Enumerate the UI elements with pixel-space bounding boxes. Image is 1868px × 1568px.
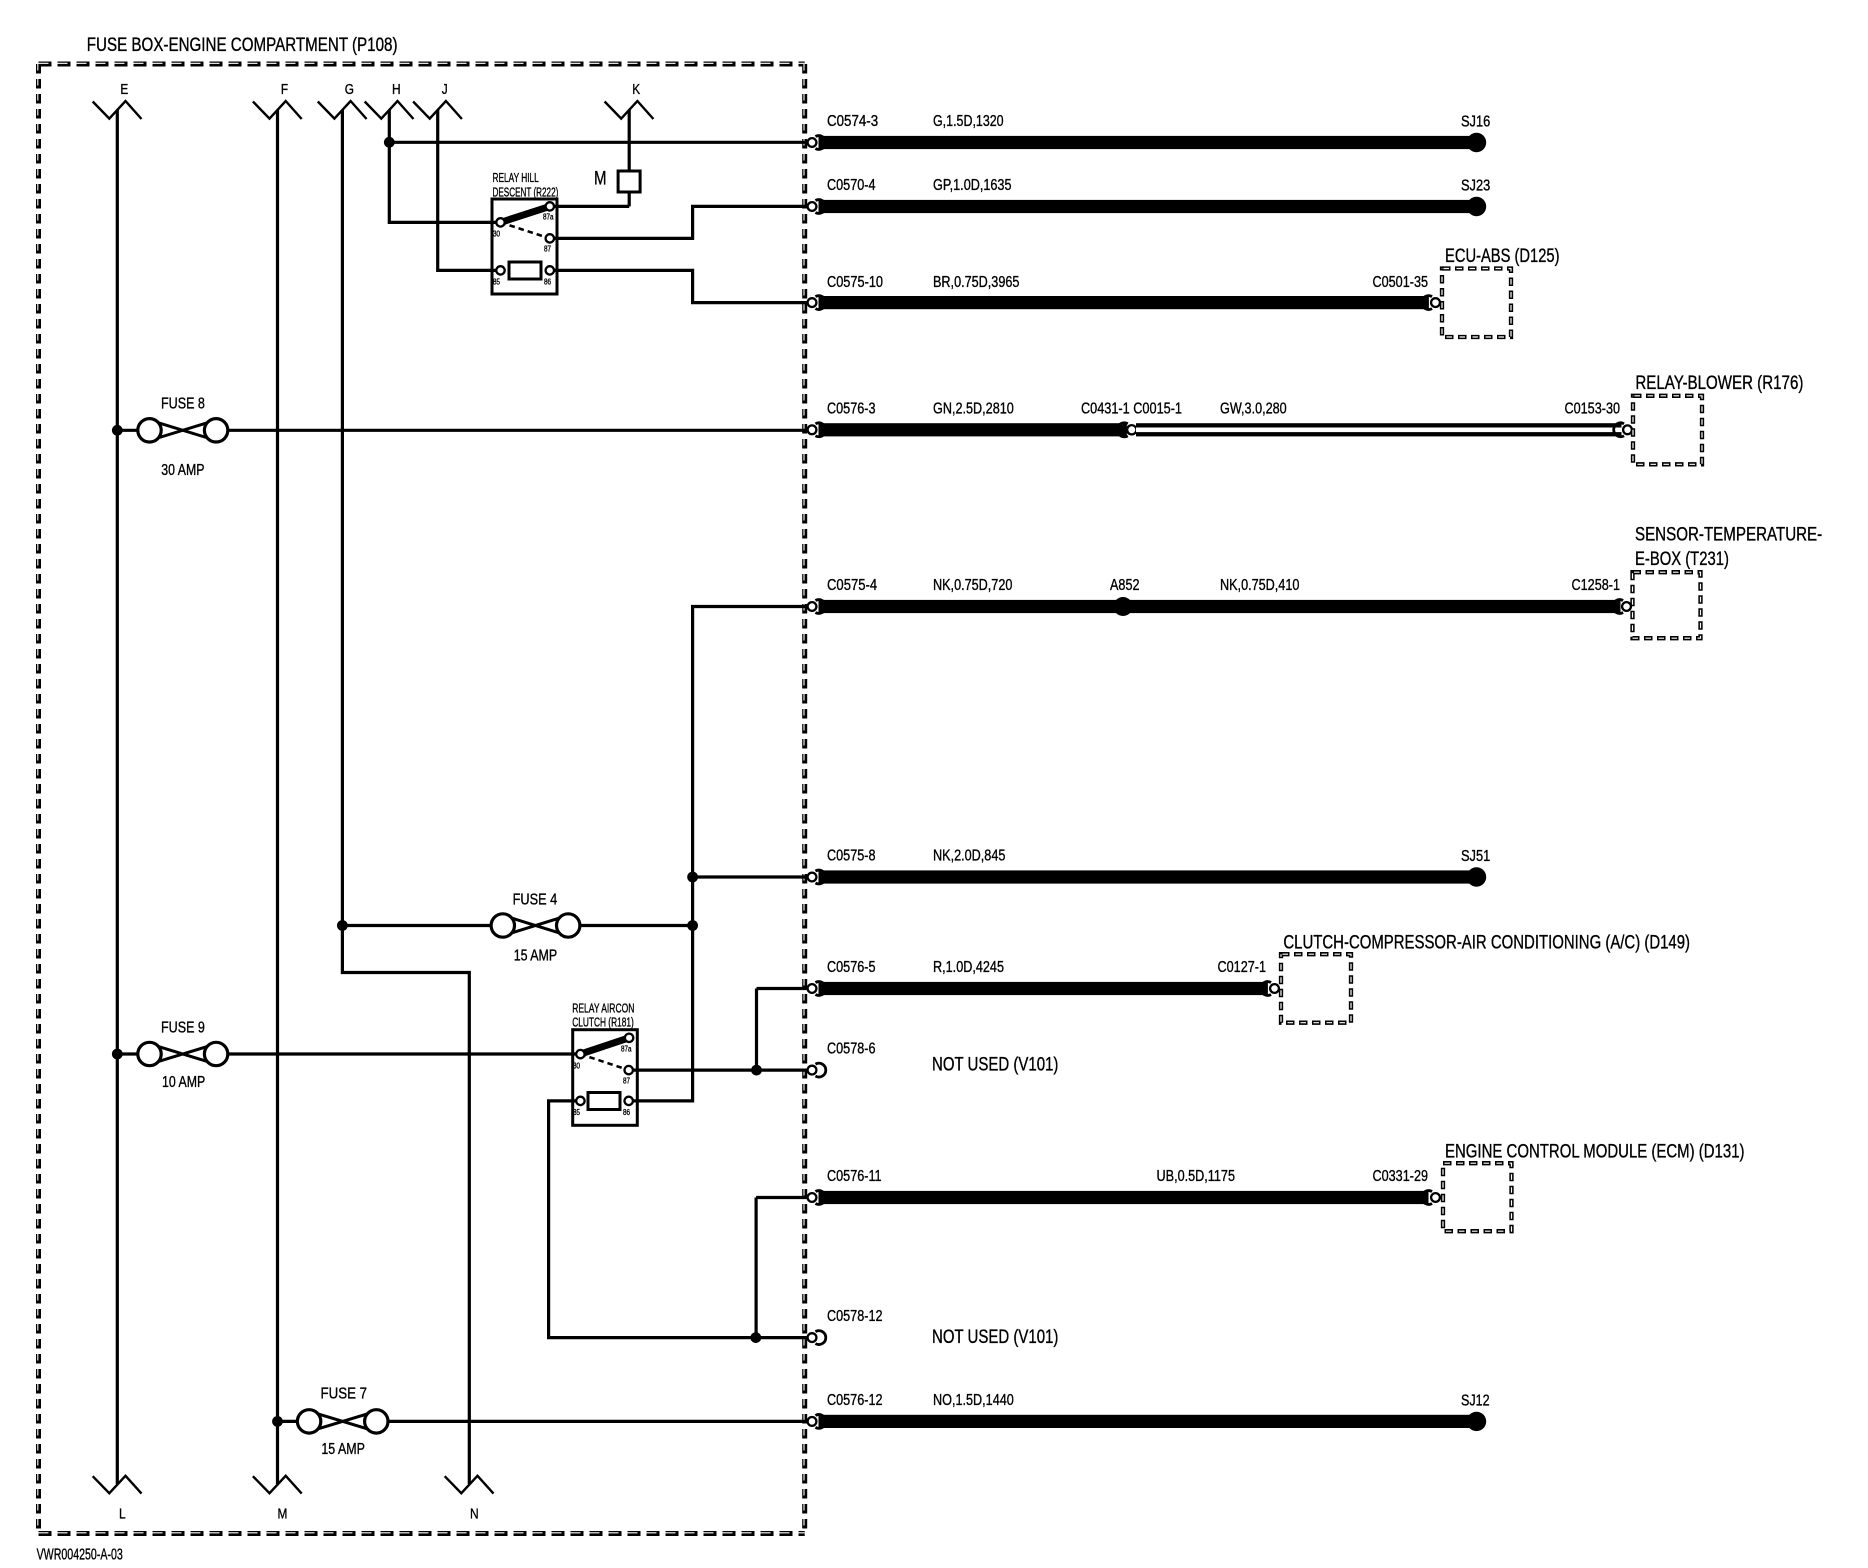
relay R181 pin 87: [623, 1066, 633, 1086]
svg-text:87a: 87a: [543, 213, 554, 222]
relay R181 pin 87a: [621, 1034, 633, 1054]
svg-text:87: 87: [623, 1077, 630, 1086]
splice SJ51: [1461, 848, 1490, 887]
svg-text:E: E: [120, 81, 128, 98]
wire H to row C0574-3: [389, 141, 807, 144]
component ENGINE CONTROL MODULE (ECM) (D131): [1443, 1142, 1745, 1232]
connector C1258-1: [1613, 600, 1632, 614]
wire bar row 5: [819, 600, 1621, 613]
wire G to fuse 4: [342, 924, 491, 927]
connector E (top): [93, 81, 142, 119]
svg-text:M: M: [278, 1506, 288, 1523]
junction dot rows 7/8: [751, 1065, 762, 1076]
svg-text:CLUTCH-COMPRESSOR-AIR CONDITIO: CLUTCH-COMPRESSOR-AIR CONDITIONING (A/C)…: [1283, 933, 1690, 954]
relay R222 pin 30: [493, 218, 505, 238]
svg-text:FUSE 8: FUSE 8: [161, 396, 205, 413]
junction dot splice column / row 6: [687, 872, 698, 883]
wire E to fuse 8: [117, 429, 138, 432]
svg-text:30: 30: [573, 1062, 580, 1071]
svg-text:FUSE BOX-ENGINE COMPARTMENT (P: FUSE BOX-ENGINE COMPARTMENT (P108): [87, 35, 398, 56]
component CLUTCH-COMPRESSOR-AIR CONDITIONING (A/C) (D149): [1281, 933, 1690, 1023]
svg-text:RELAY AIRCON: RELAY AIRCON: [572, 1000, 634, 1015]
wire fuse 8 to row C0576-3: [228, 429, 807, 432]
svg-text:NK,2.0D,845: NK,2.0D,845: [933, 848, 1005, 865]
relay R222 pin 85: [493, 266, 505, 286]
relay R222 coil: [509, 262, 541, 279]
border connector row 1: [807, 136, 826, 150]
splice SJ16: [1461, 114, 1490, 153]
svg-text:RELAY HILL: RELAY HILL: [493, 170, 539, 185]
relay R181 box: [572, 1000, 637, 1125]
junction dot splice column / fuse 4: [687, 920, 698, 931]
svg-text:C1258-1: C1258-1: [1572, 577, 1621, 594]
connector H (top): [365, 81, 414, 119]
wire bar row 4 (double line GW): [1136, 423, 1622, 436]
svg-text:GN,2.5D,2810: GN,2.5D,2810: [933, 400, 1014, 417]
svg-text:SJ12: SJ12: [1461, 1393, 1490, 1410]
fuse box P108 dashed border: [38, 63, 805, 1533]
relay R181 switch arm 30-87 (dashed): [580, 1054, 628, 1070]
svg-text:85: 85: [573, 1108, 580, 1117]
fuse F8 FUSE 8 30 AMP: [138, 396, 228, 479]
connector N (bottom): [445, 1476, 494, 1523]
wire R222 pin 86 to row C0575-10: [554, 270, 807, 302]
svg-text:L: L: [119, 1506, 126, 1523]
wire bus E: [116, 110, 119, 1484]
svg-text:C0331-29: C0331-29: [1373, 1168, 1429, 1185]
fuse F4 FUSE 4 15 AMP: [491, 892, 580, 965]
connector C0501-35: [1422, 296, 1441, 310]
svg-text:NOT USED (V101): NOT USED (V101): [932, 1054, 1058, 1075]
svg-text:C0127-1: C0127-1: [1218, 959, 1267, 976]
svg-text:BR,0.75D,3965: BR,0.75D,3965: [933, 274, 1019, 291]
svg-text:RELAY-BLOWER (R176): RELAY-BLOWER (R176): [1635, 373, 1803, 394]
svg-text:SJ51: SJ51: [1461, 848, 1490, 865]
svg-text:ENGINE CONTROL MODULE (ECM) (D: ENGINE CONTROL MODULE (ECM) (D131): [1445, 1142, 1745, 1163]
wire fuse 7 to row C0576-12: [388, 1420, 807, 1423]
border connector row 11: [807, 1415, 826, 1429]
svg-text:N: N: [470, 1506, 479, 1523]
wire R222 pin 87 to row C0570-4: [554, 206, 807, 238]
svg-text:C0153-30: C0153-30: [1565, 400, 1621, 417]
wire fuse 9 to relay R181 pin 30: [228, 1052, 581, 1055]
inline connector C0431-1/C0015-1: [1117, 423, 1136, 437]
junction dot E / fuse 9: [112, 1049, 123, 1060]
fuse F9 FUSE 9 10 AMP: [138, 1019, 228, 1091]
svg-text:C0570-4: C0570-4: [827, 177, 876, 194]
svg-text:NO,1.5D,1440: NO,1.5D,1440: [933, 1392, 1014, 1409]
wire bus G to N: [342, 110, 469, 1484]
connector C0331-29: [1422, 1191, 1441, 1205]
wire M to fuse 7: [278, 1420, 298, 1423]
svg-text:A852: A852: [1110, 577, 1140, 594]
junction dot E / fuse 8: [112, 425, 123, 436]
border connector row 8: [807, 1063, 826, 1077]
svg-text:C0578-12: C0578-12: [827, 1308, 883, 1325]
wire bar row 1: [819, 136, 1471, 149]
svg-text:NK,0.75D,720: NK,0.75D,720: [933, 577, 1012, 594]
wire bus J to relay R222 pin 85: [438, 110, 501, 270]
splice SJ12: [1461, 1393, 1490, 1432]
svg-text:GW,3.0,280: GW,3.0,280: [1220, 400, 1287, 417]
svg-text:C0576-3: C0576-3: [827, 400, 876, 417]
wire bus H to relay R222 pin 30: [389, 110, 500, 222]
svg-text:GP,1.0D,1635: GP,1.0D,1635: [933, 177, 1012, 194]
svg-text:30 AMP: 30 AMP: [161, 462, 204, 479]
svg-text:E-BOX (T231): E-BOX (T231): [1635, 549, 1729, 570]
wire E to fuse 9: [117, 1052, 138, 1055]
connector K (top): [605, 81, 654, 119]
svg-text:UB,0.5D,1175: UB,0.5D,1175: [1157, 1168, 1236, 1185]
svg-text:15 AMP: 15 AMP: [514, 948, 558, 965]
wire R181 pin 87 to rows C0576-5 / C0578-6: [633, 1068, 807, 1071]
svg-text:FUSE 7: FUSE 7: [321, 1386, 368, 1403]
fuse F7 FUSE 7 15 AMP: [297, 1386, 388, 1459]
splice A852: [1110, 577, 1140, 616]
svg-text:C0576-11: C0576-11: [827, 1168, 882, 1185]
svg-text:85: 85: [493, 278, 500, 287]
svg-text:M: M: [594, 169, 607, 190]
relay R181 coil: [588, 1093, 620, 1110]
border connector row 2: [807, 200, 826, 214]
svg-text:FUSE 9: FUSE 9: [161, 1019, 205, 1036]
wire bar row 7: [819, 982, 1268, 995]
svg-text:C0575-10: C0575-10: [827, 274, 883, 291]
connector L (bottom): [93, 1476, 142, 1523]
svg-text:C0574-3: C0574-3: [827, 113, 878, 130]
svg-text:10 AMP: 10 AMP: [162, 1074, 205, 1091]
wire bar row 11: [819, 1415, 1471, 1428]
relay R222 pin 87: [544, 234, 554, 253]
relay R181 switch arm 30-87a (solid): [580, 1038, 629, 1054]
relay R222 box: [492, 170, 558, 294]
connector F (top): [253, 81, 302, 119]
svg-text:NK,0.75D,410: NK,0.75D,410: [1220, 577, 1299, 594]
junction dot M / fuse 7: [272, 1416, 283, 1427]
svg-text:C0576-5: C0576-5: [827, 959, 876, 976]
wire bus F-M: [276, 110, 279, 1484]
svg-text:C0576-12: C0576-12: [827, 1392, 883, 1409]
splice SJ23: [1461, 178, 1490, 217]
svg-text:G: G: [345, 81, 354, 98]
component SENSOR-TEMPERATURE-E-BOX (T231): [1633, 524, 1823, 638]
junction dot rows 9/10: [750, 1332, 761, 1343]
wire bus K to motor M: [628, 110, 631, 171]
svg-text:ECU-ABS (D125): ECU-ABS (D125): [1445, 246, 1560, 267]
relay R181 pin 30: [573, 1050, 585, 1071]
connector J (top): [413, 81, 462, 119]
connector G (top): [318, 81, 367, 119]
wire bar row 2: [819, 200, 1471, 213]
border connector row 9: [807, 1191, 826, 1205]
svg-text:G,1.5D,1320: G,1.5D,1320: [933, 113, 1004, 130]
border connector row 6: [807, 870, 826, 884]
wire bar row 3: [819, 296, 1429, 309]
svg-text:C0575-4: C0575-4: [827, 577, 877, 594]
svg-text:C0501-35: C0501-35: [1373, 274, 1429, 291]
motor M box: [594, 169, 640, 193]
connector C0127-1: [1261, 982, 1280, 996]
svg-text:F: F: [281, 81, 288, 98]
component RELAY-BLOWER (R176): [1633, 373, 1803, 464]
svg-text:J: J: [442, 81, 448, 98]
svg-text:SJ16: SJ16: [1461, 114, 1490, 131]
wire bar row 9: [819, 1191, 1429, 1204]
svg-text:30: 30: [493, 230, 500, 239]
svg-text:15 AMP: 15 AMP: [321, 1441, 365, 1458]
svg-text:H: H: [392, 81, 401, 98]
svg-text:FUSE 4: FUSE 4: [513, 892, 558, 909]
wire R181 pin 86 / splice column to rows C0575-4, C0575-8: [633, 607, 807, 1101]
relay R222 switch arm 30-87 (dashed): [501, 222, 550, 238]
wire R181 pin 85 to rows C0576-11 / C0578-12: [549, 1101, 807, 1338]
relay R222 pin 87a: [543, 202, 554, 221]
svg-text:86: 86: [544, 278, 551, 287]
svg-text:C0431-1 C0015-1: C0431-1 C0015-1: [1081, 400, 1182, 417]
wire R222 pin 87a to motor M: [554, 205, 629, 208]
border connector row 10: [807, 1331, 826, 1345]
svg-text:86: 86: [623, 1108, 630, 1117]
svg-text:CLUTCH (R181): CLUTCH (R181): [572, 1015, 634, 1030]
border connector row 7: [807, 982, 826, 996]
border connector row 5: [807, 600, 826, 614]
relay R222 switch arm 30-87a (solid): [501, 206, 550, 222]
relay R222 pin 86: [544, 266, 554, 286]
junction dot H / row1: [384, 137, 395, 148]
svg-text:VWR004250-A-03: VWR004250-A-03: [37, 1547, 123, 1564]
junction dot G / fuse 4: [337, 920, 348, 931]
connector C0153-30: [1614, 423, 1633, 437]
component ECU-ABS (D125): [1442, 246, 1560, 337]
wire bar row 6: [819, 870, 1471, 883]
wire bar row 4: [819, 423, 1127, 436]
wire fuse 4 to splice column: [580, 924, 693, 927]
border connector row 3: [807, 296, 826, 310]
svg-text:K: K: [632, 81, 640, 98]
svg-text:SENSOR-TEMPERATURE-: SENSOR-TEMPERATURE-: [1635, 524, 1822, 545]
svg-text:SJ23: SJ23: [1461, 178, 1490, 195]
relay R181 pin 85: [573, 1097, 585, 1117]
svg-text:87: 87: [544, 245, 551, 254]
svg-text:DESCENT (R222): DESCENT (R222): [493, 185, 559, 200]
relay R181 pin 86: [623, 1097, 633, 1117]
svg-text:C0575-8: C0575-8: [827, 848, 876, 865]
svg-text:C0578-6: C0578-6: [827, 1041, 876, 1058]
connector M (bottom): [253, 1476, 302, 1523]
border connector row 4: [807, 423, 826, 437]
svg-text:R,1.0D,4245: R,1.0D,4245: [933, 959, 1004, 976]
svg-text:87a: 87a: [621, 1045, 632, 1054]
svg-text:NOT USED (V101): NOT USED (V101): [932, 1327, 1058, 1348]
